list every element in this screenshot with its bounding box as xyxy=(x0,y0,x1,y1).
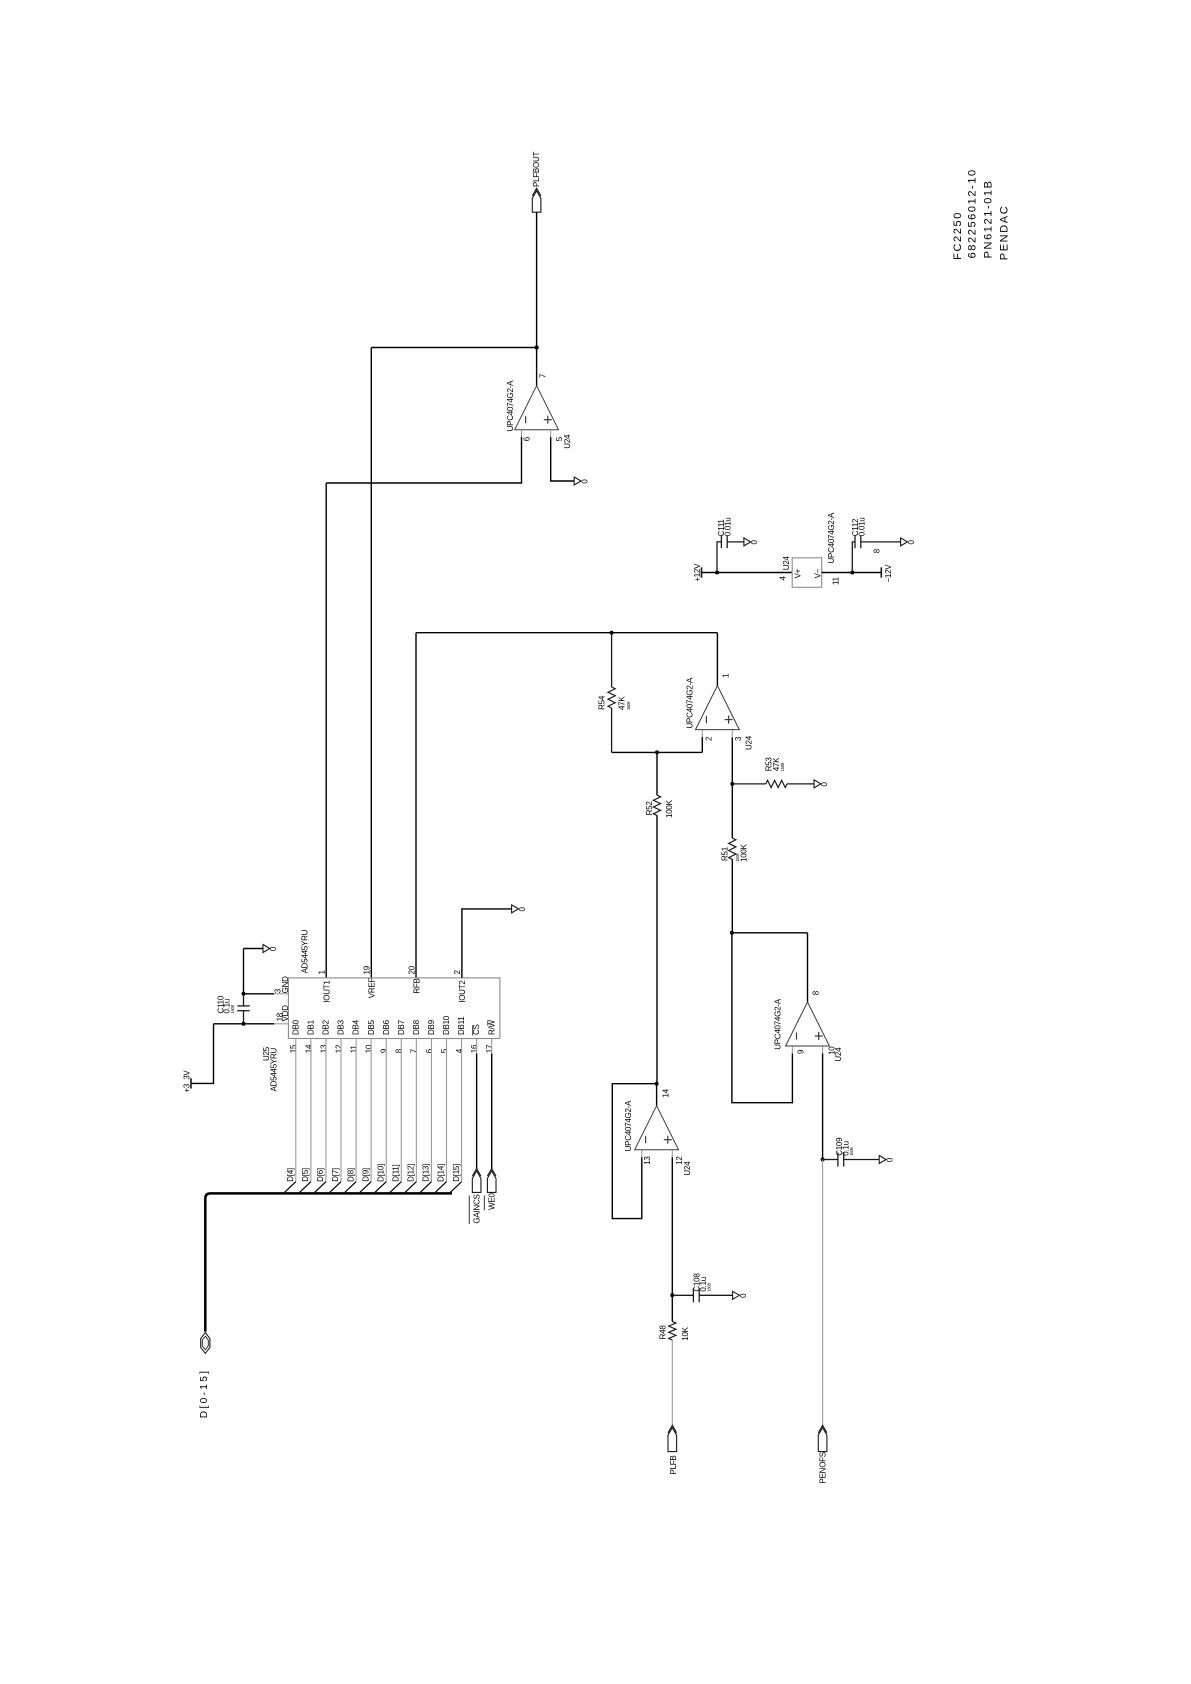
wire DB4 to bus (net D[8]) xyxy=(355,1039,357,1182)
op-amp U24A UPC4074G2-A xyxy=(515,386,559,430)
capacitor C108 0.1u xyxy=(672,1294,693,1296)
wire output node to VREF riser xyxy=(371,347,536,349)
connector WE0 xyxy=(487,1171,496,1193)
svg-text:13: 13 xyxy=(643,1156,652,1165)
resistor R54 47K xyxy=(611,633,613,687)
resistor R51 100K xyxy=(731,784,733,838)
ground 0 (C111) xyxy=(744,538,751,546)
svg-text:AD5445YRU: AD5445YRU xyxy=(301,929,310,973)
wire DB2 to bus (net D[6]) xyxy=(325,1039,327,1182)
svg-text:IOUT2: IOUT2 xyxy=(458,980,467,1003)
svg-text:IOUT1: IOUT1 xyxy=(323,980,332,1003)
op-amp U24D UPC4074G2-A xyxy=(635,1106,679,1150)
pin stub R/W xyxy=(491,1039,493,1054)
wire DB6 to bus (net D[10]) xyxy=(385,1039,387,1182)
junction C111 node xyxy=(715,571,719,575)
wire DB5 to bus (net D[9]) xyxy=(370,1039,372,1182)
svg-text:DB6: DB6 xyxy=(382,1019,391,1035)
svg-text:11: 11 xyxy=(349,1045,358,1054)
svg-text:DB10: DB10 xyxy=(442,1015,451,1035)
wire U24C feedback loop xyxy=(732,933,793,1103)
junction U24C feedback node xyxy=(730,931,734,935)
ground 0 (IOUT2) xyxy=(512,905,519,913)
svg-text:U24: U24 xyxy=(683,1161,692,1176)
svg-text:DB8: DB8 xyxy=(412,1019,421,1035)
wire U24B output riser xyxy=(716,633,718,686)
wire VREF vertical xyxy=(370,348,372,978)
power +12V xyxy=(701,567,703,577)
svg-text:14: 14 xyxy=(662,1088,671,1097)
svg-text:1608: 1608 xyxy=(780,762,785,771)
svg-text:DB9: DB9 xyxy=(427,1019,436,1035)
wire PLFB vertical xyxy=(671,1340,673,1428)
svg-text:682256012-10: 682256012-10 xyxy=(966,168,978,258)
wire pin 10 down xyxy=(822,1054,824,1160)
svg-text:17: 17 xyxy=(485,1044,494,1053)
svg-text:FC2250: FC2250 xyxy=(952,211,964,260)
pin stub 6 xyxy=(521,430,523,437)
svg-text:D[5]: D[5] xyxy=(301,1168,310,1182)
wire pin 6 to IOUT1 xyxy=(326,437,521,483)
wire GND pin xyxy=(244,993,275,995)
svg-text:V−: V− xyxy=(813,568,822,578)
pin stub 2 xyxy=(701,730,703,737)
svg-text:R54: R54 xyxy=(598,695,607,710)
junction output node xyxy=(534,345,538,349)
wire IOUT1 vertical xyxy=(325,483,327,978)
svg-text:1608: 1608 xyxy=(230,1004,235,1013)
wire DB3 to bus (net D[7]) xyxy=(340,1039,342,1182)
svg-text:1608: 1608 xyxy=(707,1282,712,1291)
connector PLFBOUT xyxy=(532,191,541,213)
svg-text:12: 12 xyxy=(675,1156,684,1165)
junction C108 node xyxy=(670,1293,674,1297)
wire pin 12 down xyxy=(671,1157,673,1295)
svg-text:D[0-15]: D[0-15] xyxy=(199,1369,210,1419)
svg-text:R52: R52 xyxy=(645,801,654,816)
capacitor C111 0.01u xyxy=(717,542,721,573)
wire GND riser xyxy=(243,949,245,994)
svg-text:15: 15 xyxy=(289,1044,298,1053)
wire IOUT2 to ground xyxy=(462,909,512,978)
svg-text:U24: U24 xyxy=(563,434,572,449)
wire RFB to U24B output xyxy=(416,632,717,634)
wire +3.3V riser xyxy=(191,1024,214,1084)
wire GND to ground arrow xyxy=(244,948,264,950)
svg-text:1608: 1608 xyxy=(849,1147,854,1156)
svg-text:16: 16 xyxy=(470,1044,479,1053)
svg-text:0.01u: 0.01u xyxy=(857,518,866,537)
wire U24C output riser xyxy=(807,933,809,1002)
IC U25 AD5445YRU body xyxy=(288,978,500,1039)
capacitor C110 0.1u xyxy=(243,994,245,1006)
resistor R52 100K xyxy=(656,752,658,795)
wire PLFBOUT to output node xyxy=(536,212,538,347)
svg-text:D[10]: D[10] xyxy=(376,1164,385,1182)
svg-text:UPC4074G2-A: UPC4074G2-A xyxy=(506,380,515,432)
junction C112 node xyxy=(850,571,854,575)
wire U24B pin 2 xyxy=(701,737,703,752)
op-amp U24C UPC4074G2-A xyxy=(786,1002,830,1046)
svg-text:14: 14 xyxy=(304,1044,313,1053)
wire U24D output stub xyxy=(656,1084,658,1106)
pin stub 5 xyxy=(550,430,552,437)
connector GAINCS xyxy=(472,1171,481,1193)
ground 0 (C109) xyxy=(879,1156,886,1164)
svg-text:100K: 100K xyxy=(665,799,674,818)
wire U24C output to node xyxy=(732,932,808,934)
svg-text:10: 10 xyxy=(365,1044,374,1053)
svg-text:R48: R48 xyxy=(659,1325,668,1340)
svg-text:19: 19 xyxy=(363,965,372,974)
wire pin 3 down xyxy=(731,737,733,784)
wire DB1 to bus (net D[5]) xyxy=(310,1039,312,1182)
resistor R53 47K xyxy=(732,783,766,785)
svg-text:U24: U24 xyxy=(744,735,753,750)
svg-text:PN6121-01B: PN6121-01B xyxy=(982,179,994,258)
pin stub CS xyxy=(476,1039,478,1054)
wire pin 5 to ground xyxy=(551,437,575,481)
svg-text:DB1: DB1 xyxy=(306,1019,315,1035)
svg-text:D[12]: D[12] xyxy=(407,1164,416,1182)
svg-text:D[6]: D[6] xyxy=(316,1168,325,1182)
pin stub 9 xyxy=(791,1046,793,1053)
ground 0 (U25 GND) xyxy=(263,945,270,953)
wire DB8 to bus (net D[12]) xyxy=(415,1039,417,1182)
pin stub GND xyxy=(273,993,275,995)
ground 0 (C112) xyxy=(901,538,908,546)
capacitor C109 0.1u xyxy=(823,1159,838,1161)
svg-text:DB0: DB0 xyxy=(291,1019,300,1035)
svg-text:10: 10 xyxy=(827,1046,836,1055)
junction U24D output node xyxy=(655,1082,659,1086)
svg-text:PLFB: PLFB xyxy=(669,1455,678,1474)
svg-text:0.01u: 0.01u xyxy=(724,518,733,537)
wire +12V to V+ xyxy=(702,572,793,574)
wire op-amp U24A output xyxy=(536,348,538,386)
pin stub 10 xyxy=(822,1046,824,1053)
svg-text:PLFBOUT: PLFBOUT xyxy=(532,151,541,187)
svg-text:UPC4074G2-A: UPC4074G2-A xyxy=(624,1100,633,1152)
svg-text:+12V: +12V xyxy=(693,563,702,582)
wire DB10 to bus (net D[14]) xyxy=(446,1039,448,1182)
svg-text:AD5445YRU: AD5445YRU xyxy=(269,1047,278,1091)
svg-text:DB3: DB3 xyxy=(337,1019,346,1035)
resistor R48 10K xyxy=(671,1295,673,1321)
wire summing node horizontal xyxy=(612,751,703,753)
svg-text:PENDAC: PENDAC xyxy=(999,205,1011,260)
wire RFB vertical xyxy=(415,633,417,978)
svg-text:CS: CS xyxy=(472,1024,481,1035)
bus D[0-15] xyxy=(205,1193,452,1331)
svg-text:R/W: R/W xyxy=(487,1020,496,1036)
svg-text:100K: 100K xyxy=(739,843,748,862)
svg-text:UPC4074G2-A: UPC4074G2-A xyxy=(685,677,694,729)
svg-text:11: 11 xyxy=(832,576,841,585)
ground 0 (C108) xyxy=(733,1291,740,1299)
svg-text:DB7: DB7 xyxy=(397,1019,406,1035)
capacitor C112 0.01u xyxy=(852,542,855,573)
junction C110 bottom xyxy=(242,1022,246,1026)
svg-text:UPC4074G2-A: UPC4074G2-A xyxy=(774,998,783,1050)
svg-text:D[13]: D[13] xyxy=(422,1164,431,1182)
svg-text:UPC4074G2-A: UPC4074G2-A xyxy=(827,512,836,564)
pin stub VDD xyxy=(274,1023,288,1025)
svg-text:1608: 1608 xyxy=(626,701,631,710)
svg-text:VREF: VREF xyxy=(368,978,377,999)
svg-text:DB5: DB5 xyxy=(367,1019,376,1035)
svg-text:D[7]: D[7] xyxy=(331,1168,340,1182)
connector PENOFS xyxy=(818,1428,827,1452)
svg-text:D[9]: D[9] xyxy=(361,1168,370,1182)
svg-text:D[8]: D[8] xyxy=(346,1168,355,1182)
wire VDD pin xyxy=(214,1023,275,1025)
pin stub 3 xyxy=(731,730,733,737)
junction C110 top xyxy=(242,992,246,996)
svg-text:DB11: DB11 xyxy=(457,1016,466,1035)
wire DB9 to bus (net D[13]) xyxy=(430,1039,432,1182)
power +3_3V xyxy=(190,1078,192,1088)
svg-text:V+: V+ xyxy=(793,568,802,578)
svg-text:DB4: DB4 xyxy=(352,1019,361,1035)
svg-text:18: 18 xyxy=(276,1012,285,1021)
bus connector D[0-15] xyxy=(201,1333,210,1354)
svg-text:D[14]: D[14] xyxy=(437,1164,446,1182)
svg-text:D[11]: D[11] xyxy=(391,1164,400,1181)
svg-text:DB2: DB2 xyxy=(322,1019,331,1035)
svg-text:12: 12 xyxy=(334,1044,343,1053)
pin stub 13 xyxy=(641,1150,643,1157)
wire DB0 to bus (net D[4]) xyxy=(295,1039,297,1182)
svg-text:GAINCS: GAINCS xyxy=(472,1194,481,1223)
junction R52 top xyxy=(655,750,659,754)
junction R54 top xyxy=(610,631,614,635)
pin stub 12 xyxy=(671,1150,673,1157)
svg-text:R51: R51 xyxy=(721,846,730,861)
wire GAINCS to CS xyxy=(476,1053,478,1169)
connector PLFB xyxy=(668,1428,677,1452)
svg-text:U24: U24 xyxy=(782,556,791,571)
svg-text:D[15]: D[15] xyxy=(452,1164,461,1182)
op-amp U24B UPC4074G2-A xyxy=(696,686,740,730)
junction C109 node xyxy=(821,1158,825,1162)
svg-text:−12V: −12V xyxy=(884,564,893,583)
junction R53 node xyxy=(730,782,734,786)
svg-text:D[4]: D[4] xyxy=(286,1168,295,1182)
wire WE0 to R/W xyxy=(491,1053,493,1169)
svg-text:PENOFS: PENOFS xyxy=(819,1452,828,1483)
svg-text:13: 13 xyxy=(319,1044,328,1053)
svg-text:GND: GND xyxy=(281,976,290,994)
wire DB7 to bus (net D[11]) xyxy=(400,1039,402,1182)
wire PENOFS vertical xyxy=(822,1160,824,1428)
svg-text:WE0: WE0 xyxy=(487,1193,496,1210)
svg-text:+3_3V: +3_3V xyxy=(182,1070,191,1093)
ground 0 (op-amp A non-inv) xyxy=(574,477,581,485)
wire V- to -12V xyxy=(822,572,882,574)
ground 0 (R53) xyxy=(814,780,821,788)
power -12V xyxy=(880,567,882,577)
wire DB11 to bus (net D[15]) xyxy=(461,1039,463,1182)
IC U24 power pins body xyxy=(792,558,822,588)
wire U24D feedback loop xyxy=(612,1084,656,1219)
svg-text:10K: 10K xyxy=(681,1326,690,1340)
svg-text:20: 20 xyxy=(407,965,416,974)
svg-text:RFB: RFB xyxy=(412,978,421,993)
